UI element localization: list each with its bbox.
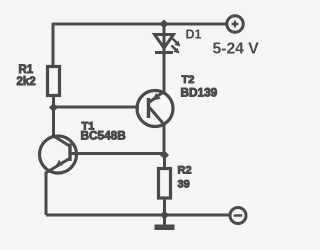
- ground: [155, 215, 175, 230]
- wire: T1 base to node B: [71, 152, 164, 155]
- wire: T2 emitter down to node B: [163, 124, 166, 155]
- svg-text:D1: D1: [186, 28, 202, 42]
- wire: top rail to D1 anode: [163, 24, 166, 35]
- wire: bottom ground rail: [46, 214, 230, 217]
- node A: junction R1 / T1 collector / T2 base: [49, 103, 58, 112]
- svg-text:R2: R2: [178, 165, 192, 177]
- wire: D1 cathode to T2 collector: [163, 53, 166, 93]
- node B: junction T2 emitter / T1 base / R2: [160, 150, 169, 159]
- wire: junction A down to T1 collector: [52, 107, 55, 138]
- terminal negative: [230, 208, 246, 224]
- wire: top +V rail: [53, 23, 227, 26]
- svg-text:39: 39: [178, 179, 190, 191]
- wire: T1 emitter down to bottom rail: [45, 172, 48, 216]
- wire: node B down to R2: [163, 155, 166, 168]
- resistor R2: [159, 169, 171, 199]
- svg-text:2k2: 2k2: [17, 76, 36, 88]
- node D: junction top rail / D1 anode: [159, 19, 168, 28]
- transistor T1: [40, 136, 77, 173]
- LED D1: [155, 35, 181, 54]
- wire: junction A to T2 base: [54, 106, 140, 109]
- transistor T2: [137, 91, 173, 127]
- resistor R1: [48, 67, 60, 96]
- svg-text:5-24 V: 5-24 V: [213, 41, 260, 58]
- svg-text:BD139: BD139: [181, 86, 218, 100]
- wire: R1 bottom to junction A: [52, 96, 55, 107]
- node C: bottom junction R2 / ground: [160, 210, 169, 219]
- wire: R2 bottom to bottom rail: [163, 198, 166, 215]
- svg-text:T2: T2: [182, 74, 195, 86]
- svg-text:R1: R1: [19, 64, 34, 76]
- wire: left branch from top rail down to R1: [52, 23, 55, 66]
- terminal +V: [227, 16, 243, 32]
- svg-text:BC548B: BC548B: [81, 129, 126, 143]
